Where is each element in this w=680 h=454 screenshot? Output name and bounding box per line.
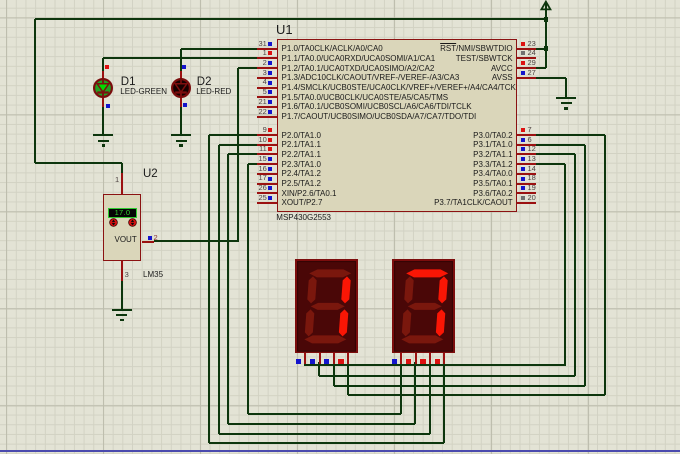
- pin 29 stub: [517, 67, 537, 69]
- pin number 16: [258, 165, 266, 173]
- pin 10 state indicator: [268, 138, 272, 142]
- pin name P1.5/TA0.0/UCB0CLK/UCA0STE/A5/CA5/TMS: [282, 94, 449, 102]
- wire P2.2 bottom run: [228, 423, 415, 425]
- pin 21 state indicator: [268, 100, 272, 104]
- pin 2 state indicator: [268, 61, 272, 65]
- pin number 22: [258, 108, 266, 116]
- ground D2: [171, 134, 191, 136]
- pin 7 state indicator: [521, 128, 525, 132]
- pin 24 state indicator: [521, 51, 525, 55]
- pin 25 stub (XOUT): [257, 202, 277, 204]
- pin name XOUT/P2.7: [282, 199, 323, 207]
- U2 pin number 1: [115, 176, 119, 184]
- sensor U2 LM35 body: [103, 194, 141, 261]
- wire P3.0 down: [604, 135, 606, 395]
- pin number 31: [258, 40, 266, 48]
- pin number 12: [528, 145, 536, 153]
- pin 6 state indicator: [521, 138, 525, 142]
- pin number 15: [258, 155, 266, 163]
- pin number 3: [263, 69, 267, 77]
- wire P3.2 out: [536, 153, 575, 155]
- pin 26 state indicator: [268, 186, 272, 190]
- wire P1.2 down to VOUT: [237, 68, 239, 242]
- pin name P1.6/TA0.1/UCB0SOMI/UCB0SCL/A6/CA6/TDI/TCLK: [282, 103, 472, 111]
- pin 20 state indicator: [521, 196, 525, 200]
- pin 11 state indicator: [268, 147, 272, 151]
- pin name P2.5/TA1.2: [282, 180, 321, 188]
- pin name P1.3/ADC10CLK/CAOUT/VREF-/VEREF-/A3/CA3: [282, 74, 460, 82]
- pin 14 state indicator: [521, 167, 525, 171]
- pin 3 stub (P1.3): [257, 77, 277, 79]
- pin 25 state indicator: [268, 196, 272, 200]
- pin 31 stub (P1.0): [257, 48, 277, 50]
- pin number 19: [528, 184, 536, 192]
- pin 16 stub (P2.4): [257, 173, 277, 175]
- wire P2.1 bottom run: [219, 433, 430, 435]
- pin number 13: [528, 155, 536, 163]
- U2 pin 2 stub: [142, 241, 155, 243]
- pin name right 19: [473, 190, 512, 198]
- wire P2.0 out: [209, 134, 257, 136]
- ground D1: [93, 134, 113, 136]
- U2 pin 2 state indicator: [148, 236, 152, 240]
- label U1 value MSP430G2553: [276, 214, 331, 222]
- DS2 pin 1 state indicator: [392, 359, 397, 364]
- pin name right 24: [456, 55, 513, 63]
- wire P3.1 down: [584, 145, 586, 386]
- wire to LM35 pin 1: [35, 162, 122, 164]
- wire AVSS: [536, 77, 566, 79]
- wire P2.1 up to DS2 pin: [429, 362, 431, 434]
- pin 20 stub: [517, 202, 537, 204]
- pin number 24: [528, 49, 536, 57]
- pin number 27: [528, 69, 536, 77]
- pin 16 state indicator: [268, 167, 272, 171]
- pin number 1: [263, 49, 267, 57]
- pin 7 stub: [517, 134, 537, 136]
- DS2 pin 2 stub: [415, 353, 417, 364]
- pin number 29: [528, 59, 536, 67]
- wire D1 cathode down: [102, 107, 104, 134]
- wire AVSS down: [565, 78, 567, 97]
- wire RST to VCC: [536, 48, 546, 50]
- pin 18 state indicator: [521, 177, 525, 181]
- pin number 2: [263, 59, 267, 67]
- pin number 18: [528, 174, 536, 182]
- pin name P1.2/TA0.1/UCA0TXD/UCA0SIMO/A2/CA2: [282, 65, 435, 73]
- DS1 pin 3 stub: [333, 353, 335, 364]
- pin number 9: [263, 126, 267, 134]
- pin name P1.7/CAOUT/UCB0SIMO/UCB0SDA/A7/CA7/TDO/TDI: [282, 113, 477, 121]
- label D2 value LED-RED: [196, 88, 231, 96]
- pin 24 stub: [517, 57, 537, 59]
- pin number 21: [258, 98, 266, 106]
- wire left rail down to LM35: [34, 19, 36, 163]
- wire P2.3 down: [247, 164, 249, 414]
- wire P2.2 down: [227, 154, 229, 424]
- wire P2.0 down: [208, 135, 210, 443]
- wire VCC vertical: [545, 2, 547, 68]
- junction at RST row: [544, 46, 549, 51]
- D1 cathode state indicator: [106, 104, 110, 108]
- U2 temperature readout 17.0: [108, 208, 138, 218]
- pin number 20: [528, 194, 536, 202]
- wire D2 anode up: [180, 49, 182, 71]
- label D1 value LED-GREEN: [120, 88, 167, 96]
- D1 anode state indicator: [105, 65, 109, 69]
- pin 27 state indicator: [521, 71, 525, 75]
- pin 14 stub: [517, 173, 537, 175]
- wire P2.0 up to DS2 pin: [443, 362, 445, 443]
- LED D2 (red, off): [170, 77, 192, 99]
- pin name right 13: [473, 161, 512, 169]
- pin 15 state indicator: [268, 157, 272, 161]
- pin 31 state indicator: [268, 42, 272, 46]
- pin 12 state indicator: [521, 147, 525, 151]
- wire VOUT: [154, 240, 238, 242]
- LED D1 (green, on): [92, 77, 114, 99]
- wire LM35 pin 3 down: [121, 281, 123, 309]
- wire DS1 pin 1: [304, 362, 306, 366]
- wire P2.1 down: [218, 145, 220, 434]
- pin 22 state indicator: [268, 110, 272, 114]
- wire P1.2 out: [238, 67, 257, 69]
- DS2 pin 4 state indicator: [435, 359, 440, 364]
- pin stub D1 anode: [102, 71, 104, 79]
- pin 11 stub (P2.2): [257, 153, 277, 155]
- wire P2.1 out: [219, 144, 257, 146]
- DS2 pin 3 state indicator: [420, 359, 425, 364]
- wire P3.1 run to DS1: [334, 385, 585, 387]
- pin name P2.2/TA1.1: [282, 151, 321, 159]
- DS1 pin 1 state indicator: [296, 359, 301, 364]
- pin 5 stub (P1.5): [257, 96, 277, 98]
- pin number 26: [258, 184, 266, 192]
- pin 9 stub (P2.0): [257, 134, 277, 136]
- wire D2 to P1.0: [181, 48, 257, 50]
- pin 26 stub (XIN): [257, 192, 277, 194]
- wire VCC top rail: [35, 18, 546, 20]
- pin stub D2 cathode: [180, 98, 182, 107]
- pin 12 stub: [517, 153, 537, 155]
- pin 22 stub (P1.7): [257, 116, 277, 118]
- IC U1 MSP430G2553 body: [277, 39, 517, 213]
- pin number 17: [258, 174, 266, 182]
- D2 anode state indicator: [182, 65, 186, 69]
- U2 pin number 2: [154, 234, 158, 242]
- label D2 designator: [197, 76, 212, 88]
- pin 17 stub (P2.5): [257, 183, 277, 185]
- wire D1 anode up: [102, 58, 104, 71]
- wire D1 to P1.1: [103, 57, 257, 59]
- pin name right 23: [440, 45, 512, 53]
- label U2 value LM35: [143, 271, 163, 279]
- pin name P2.4/TA1.2: [282, 170, 321, 178]
- pin name right 14: [473, 170, 512, 178]
- pin 17 state indicator: [268, 177, 272, 181]
- U2 pin number 3: [125, 271, 129, 279]
- wire P3.1 out: [536, 144, 585, 146]
- U2 adjust button up: [127, 217, 138, 228]
- U2 adjust button down: [108, 217, 119, 228]
- wire P2.3 bottom run: [248, 413, 401, 415]
- wire into LM35 pin 1: [121, 163, 123, 173]
- sheet border line: [0, 450, 680, 452]
- pin 6 stub: [517, 144, 537, 146]
- wire P3.3 out: [536, 163, 565, 165]
- wire AVCC to VCC: [536, 67, 546, 69]
- pin number 10: [258, 136, 266, 144]
- pin number 23: [528, 40, 536, 48]
- wire P3.2 run to DS1: [319, 375, 575, 377]
- wire P2.2 out: [228, 153, 257, 155]
- wire DS1 pin 2: [318, 362, 320, 376]
- pin 4 stub (P1.4): [257, 87, 277, 89]
- DS1 pin 2 stub: [319, 353, 321, 364]
- pin name P2.0/TA1.0: [282, 132, 321, 140]
- pin name P1.0/TA0CLK/ACLK/A0/CA0: [282, 45, 383, 53]
- pin number 5: [263, 88, 267, 96]
- DS1 pin 4 state indicator: [338, 359, 343, 364]
- junction at VCC rail: [544, 17, 549, 22]
- wire D2 cathode down: [180, 107, 182, 134]
- ground AVSS: [556, 97, 576, 99]
- DS1 pin 4 stub: [347, 353, 349, 364]
- wire P3.3 down: [564, 164, 566, 366]
- pin number 6: [528, 136, 532, 144]
- pin 27 stub: [517, 77, 537, 79]
- pin 13 state indicator: [521, 157, 525, 161]
- pin 10 stub (P2.1): [257, 144, 277, 146]
- U2 pin 3 stub: [121, 261, 123, 281]
- pin name right 6: [473, 141, 512, 149]
- pin name P2.1/TA1.1: [282, 141, 321, 149]
- pin name right 12: [473, 151, 512, 159]
- DS2 pin 4 stub: [443, 353, 445, 364]
- label U1 designator: [276, 23, 293, 37]
- wire P3.2 down: [574, 154, 576, 376]
- pin 19 stub: [517, 192, 537, 194]
- pin stub D2 anode: [180, 71, 182, 79]
- pin 5 state indicator: [268, 90, 272, 94]
- pin name right 29: [491, 65, 513, 73]
- pin name P2.3/TA1.0: [282, 161, 321, 169]
- pin 19 state indicator: [521, 186, 525, 190]
- DS2 pin 1 stub: [400, 353, 402, 364]
- pin 1 stub (P1.1): [257, 57, 277, 59]
- label U2 designator: [143, 168, 158, 180]
- pin name right 20: [434, 199, 513, 207]
- pin 13 stub: [517, 163, 537, 165]
- pin 29 state indicator: [521, 61, 525, 65]
- DS2 pin 2 state indicator: [406, 359, 411, 364]
- pin name XIN/P2.6/TA0.1: [282, 190, 337, 198]
- wire P2.0 bottom run: [209, 442, 444, 444]
- pin name right 7: [473, 132, 512, 140]
- pin name P1.4/SMCLK/UCB0STE/UCA0CLK/VREF+/VEREF+/A4/CA4/TCK: [282, 84, 516, 92]
- pin name P1.1/TA0.0/UCA0RXD/UCA0SOMI/A1/CA1: [282, 55, 436, 63]
- pin number 25: [258, 194, 266, 202]
- wire DS1 pin 3: [333, 362, 335, 386]
- pin name right 18: [473, 180, 512, 188]
- D2 cathode state indicator: [183, 103, 187, 107]
- U2 pin 1 stub: [121, 173, 123, 194]
- DS1 pin 2 state indicator: [310, 359, 315, 364]
- wire P2.2 up to DS2 pin: [414, 362, 416, 424]
- pin number 4: [263, 78, 267, 86]
- pin 15 stub (P2.3): [257, 163, 277, 165]
- label D1 designator: [121, 76, 136, 88]
- pin 1 state indicator: [268, 51, 272, 55]
- power symbol VCC: [538, 0, 556, 12]
- DS2 pin 3 stub: [429, 353, 431, 364]
- wire P2.3 up to DS2 pin: [400, 362, 402, 414]
- pin 21 stub (P1.6): [257, 106, 277, 108]
- wire P3.0 out: [536, 134, 605, 136]
- pin stub D1 cathode: [102, 98, 104, 107]
- wire P2.3 out: [248, 163, 257, 165]
- DS1 pin 1 stub: [304, 353, 306, 364]
- pin number 11: [259, 145, 267, 153]
- pin number 7: [528, 126, 532, 134]
- wire P3.3 run to DS1: [305, 364, 565, 366]
- ground LM35: [112, 309, 132, 311]
- display DS1 7SEG-BCD showing 1: [295, 259, 358, 354]
- pin number 14: [528, 165, 536, 173]
- pin 4 state indicator: [268, 81, 272, 85]
- pin 9 state indicator: [268, 128, 272, 132]
- pin 23 state indicator: [521, 42, 525, 46]
- wire DS1 pin 4: [347, 362, 349, 395]
- display DS2 7SEG-BCD showing 7: [392, 259, 455, 354]
- pin 2 stub (P1.2): [257, 67, 277, 69]
- pin 18 stub: [517, 183, 537, 185]
- pin name right 27: [492, 74, 513, 82]
- pin 3 state indicator: [268, 71, 272, 75]
- DS1 pin 3 state indicator: [324, 359, 329, 364]
- label VOUT: [115, 236, 137, 244]
- wire P3.0 run to DS1: [348, 394, 605, 396]
- pin 23 stub: [517, 48, 537, 50]
